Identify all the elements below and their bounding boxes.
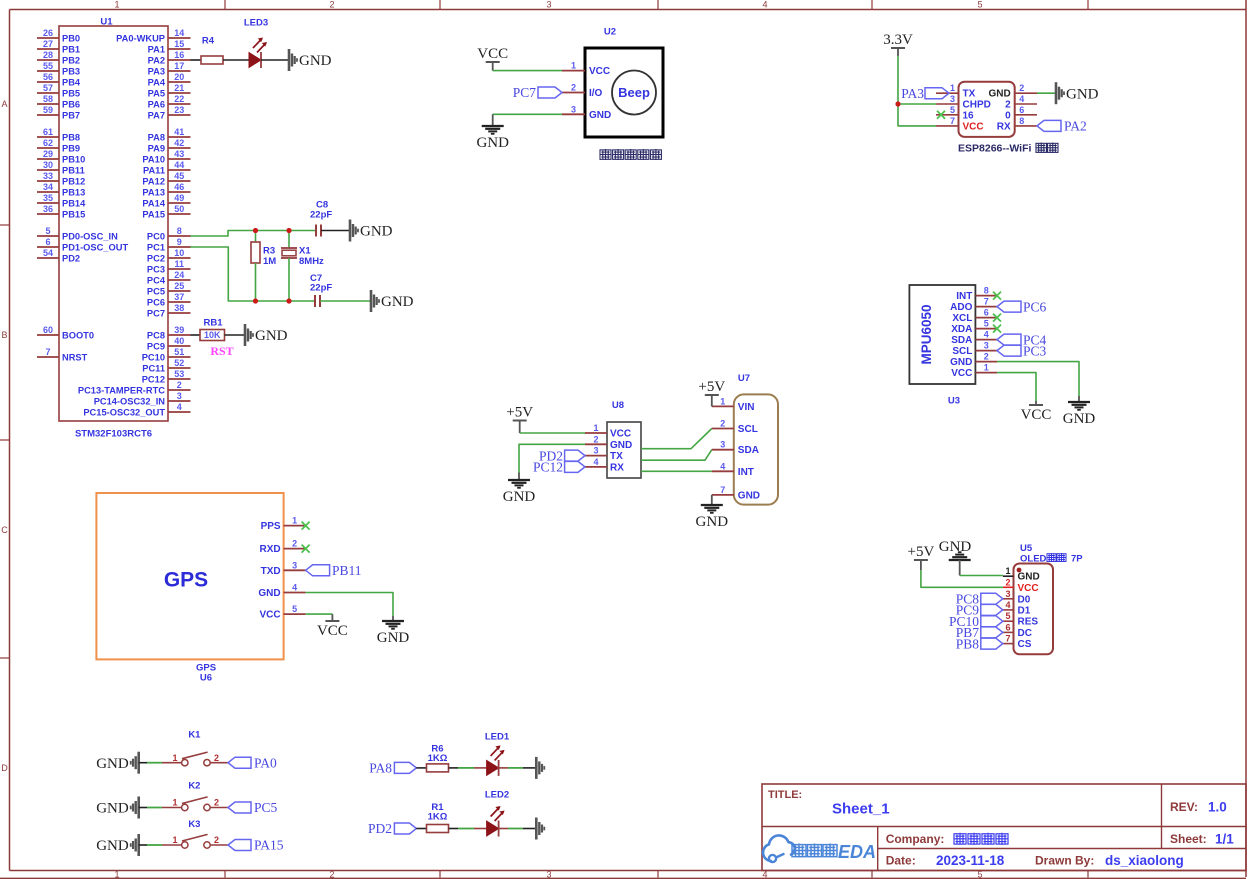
svg-text:Sheet_1: Sheet_1: [832, 800, 890, 817]
svg-text:GND: GND: [381, 294, 414, 310]
svg-text:PC5: PC5: [147, 286, 165, 296]
svg-text:10K: 10K: [204, 330, 221, 340]
svg-text:2: 2: [1019, 83, 1024, 93]
U5 pin 5 RES: [1003, 611, 1038, 628]
svg-text:RST: RST: [210, 344, 233, 358]
title block Sheet: [1170, 832, 1234, 847]
svg-text:+5V: +5V: [506, 405, 533, 421]
svg-text:61: 61: [43, 127, 53, 137]
svg-text:PC14-OSC32_IN: PC14-OSC32_IN: [94, 396, 166, 406]
svg-text:LED2: LED2: [485, 789, 509, 800]
net flag PA3: [901, 86, 949, 101]
U1 pin 57 PB5: [37, 83, 80, 98]
svg-text:PC3: PC3: [147, 264, 165, 274]
svg-text:28: 28: [43, 50, 53, 60]
svg-text:PA8: PA8: [369, 761, 392, 776]
wire R4 to LED3: [223, 59, 249, 61]
svg-text:4: 4: [762, 0, 767, 10]
title block REV: [1170, 800, 1227, 815]
svg-text:54: 54: [43, 248, 53, 258]
U5 pin 6 DC: [1003, 622, 1032, 639]
svg-text:I/O: I/O: [589, 88, 603, 99]
svg-text:5: 5: [950, 105, 955, 115]
svg-text:PD2: PD2: [62, 253, 80, 263]
svg-text:GND: GND: [503, 489, 536, 505]
U1 pin 44 PA11: [143, 160, 191, 175]
svg-text:PA5: PA5: [148, 88, 165, 98]
svg-text:CS: CS: [1018, 639, 1032, 650]
svg-text:3: 3: [593, 446, 598, 456]
svg-text:U8: U8: [612, 400, 624, 411]
U5 pin 2 VCC: [1003, 577, 1039, 594]
svg-text:XCL: XCL: [952, 313, 972, 324]
wire R3 top: [255, 231, 257, 243]
svg-text:PB11: PB11: [332, 563, 362, 578]
U1 pin 3 PC14-OSC32_IN: [94, 391, 191, 406]
U1 pin 45 PA12: [142, 171, 190, 186]
svg-text:PC12: PC12: [142, 374, 165, 384]
U1 pin 55 PB3: [37, 61, 80, 76]
power flag +5V at U5: [908, 544, 935, 560]
svg-text:PA4: PA4: [148, 77, 166, 87]
svg-text:PB6: PB6: [62, 99, 80, 109]
U1 pin 30 PB11: [37, 160, 85, 175]
U3 pin 3 SCL: [952, 341, 997, 358]
svg-text:5: 5: [292, 604, 297, 614]
U1 pin 17 PA3: [148, 61, 191, 76]
no-connect X at U3 pins 8 6 5: [993, 292, 1001, 333]
svg-text:2: 2: [571, 83, 576, 93]
svg-text:2: 2: [593, 434, 598, 444]
svg-text:GND: GND: [258, 588, 280, 599]
U6 pin 3 TXD: [261, 560, 306, 577]
svg-text:GND: GND: [610, 440, 632, 451]
svg-text:DC: DC: [1018, 628, 1032, 639]
svg-text:0: 0: [1005, 110, 1011, 121]
svg-text:56: 56: [43, 72, 53, 82]
U7 pin 4 INT: [712, 461, 754, 478]
power flag +5V at U7: [698, 379, 725, 406]
svg-text:PA13: PA13: [142, 187, 165, 197]
wire U2 pin3 to GND: [493, 113, 562, 115]
svg-text:PA1: PA1: [148, 44, 165, 54]
svg-text:K3: K3: [188, 819, 200, 830]
svg-text:PA9: PA9: [148, 143, 165, 153]
ground GND at GPS: [392, 616, 394, 621]
LED LED3: [244, 17, 268, 68]
svg-text:D1: D1: [1018, 605, 1031, 616]
LED LED2: [485, 789, 509, 836]
power flag VCC at U3: [1021, 401, 1052, 423]
U8 pin 3 TX: [585, 446, 623, 463]
svg-text:PD2: PD2: [368, 821, 392, 836]
U1 pin 11 PC3: [147, 259, 191, 274]
pin1 mark dot U5: [1017, 568, 1022, 573]
svg-text:PB15: PB15: [62, 209, 85, 219]
svg-text:3.3V: 3.3V: [883, 32, 913, 48]
svg-text:2: 2: [1005, 100, 1011, 111]
svg-text:1: 1: [172, 835, 177, 845]
svg-text:3: 3: [546, 0, 551, 10]
svg-text:42: 42: [174, 138, 184, 148]
svg-text:GND: GND: [1066, 86, 1099, 102]
svg-text:PC5: PC5: [254, 800, 278, 815]
svg-text:Beep: Beep: [618, 85, 650, 100]
svg-text:PB13: PB13: [62, 187, 85, 197]
svg-text:4: 4: [984, 330, 989, 340]
svg-text:10: 10: [174, 248, 184, 258]
ground GND at U2: [492, 114, 494, 125]
no-connect X at GPS pins 1 2: [302, 522, 310, 553]
svg-text:PA3: PA3: [901, 86, 924, 101]
svg-text:4: 4: [720, 461, 725, 471]
svg-text:40: 40: [174, 336, 184, 346]
svg-text:PA7: PA7: [148, 110, 165, 120]
svg-text:EDA: EDA: [838, 842, 876, 862]
svg-text:STM32F103RCT6: STM32F103RCT6: [75, 428, 152, 439]
svg-text:51: 51: [174, 347, 184, 357]
svg-text:GND: GND: [939, 539, 972, 555]
svg-text:30: 30: [43, 160, 53, 170]
ground GND at K3: [96, 834, 139, 856]
net flag PB11: [306, 563, 362, 578]
svg-text:GND: GND: [1063, 411, 1096, 427]
U1 pin 2 PC13-TAMPER-RTC: [78, 380, 191, 395]
svg-text:PB3: PB3: [62, 66, 80, 76]
U5 pin 7 CS: [1003, 634, 1032, 651]
U1 pin 60 BOOT0: [37, 325, 94, 340]
U3 pin 6 XCL: [952, 308, 997, 325]
U1 pin 34 PB13: [37, 182, 85, 197]
svg-text:U1: U1: [100, 16, 113, 27]
U1 pin 9 PC1: [147, 237, 191, 252]
svg-text:52: 52: [174, 358, 184, 368]
svg-text:7: 7: [950, 116, 955, 126]
U1 pin 38 PC7: [147, 303, 191, 318]
svg-text:PC11: PC11: [142, 363, 165, 373]
svg-text:60: 60: [43, 325, 53, 335]
svg-text:58: 58: [43, 94, 53, 104]
resistor R1 1K: [427, 802, 449, 832]
net flag PC5: [228, 800, 278, 815]
ground at LED1: [536, 757, 544, 779]
svg-text:VCC: VCC: [589, 66, 610, 77]
svg-text:1.0: 1.0: [1208, 800, 1227, 815]
resistor R6 1K: [427, 743, 449, 772]
svg-text:1M: 1M: [263, 256, 276, 267]
U1 pin 61 PB8: [37, 127, 80, 142]
svg-text:20: 20: [174, 72, 184, 82]
svg-text:PC7: PC7: [147, 308, 165, 318]
svg-text:2: 2: [329, 870, 334, 879]
wire R3 bottom: [255, 263, 257, 301]
title block frame: [762, 784, 1246, 871]
wire U8 GND: [519, 444, 585, 472]
svg-text:1KΩ: 1KΩ: [428, 812, 448, 823]
svg-text:+5V: +5V: [908, 544, 935, 560]
U1 pin 16 PA2: [148, 50, 191, 65]
svg-text:PB4: PB4: [62, 77, 81, 87]
svg-text:2: 2: [720, 419, 725, 429]
svg-text:4: 4: [292, 583, 297, 593]
svg-text:1KΩ: 1KΩ: [428, 753, 448, 764]
svg-text:PD0-OSC_IN: PD0-OSC_IN: [62, 231, 118, 241]
ground at LED2: [536, 818, 544, 840]
svg-text:PB12: PB12: [62, 176, 85, 186]
svg-text:39: 39: [174, 325, 184, 335]
U1 pin 5 PD0-OSC_IN: [37, 226, 118, 241]
svg-text:TX: TX: [610, 451, 623, 462]
svg-text:11: 11: [174, 259, 184, 269]
svg-text:PA15: PA15: [254, 838, 284, 853]
no-connect X at ESP pin5: [937, 111, 945, 119]
svg-text:38: 38: [174, 303, 184, 313]
U1 pin 51 PC10: [142, 347, 191, 362]
wire K1 to flag: [210, 762, 228, 764]
svg-text:VCC: VCC: [610, 429, 631, 440]
power flag 3.3V: [883, 32, 913, 56]
U1 pin 52 PC11: [142, 358, 190, 373]
ground GND at LED3: [289, 49, 332, 71]
svg-text:7: 7: [1005, 634, 1010, 644]
svg-text:INT: INT: [956, 291, 972, 302]
wire PA8 to R6: [416, 767, 426, 769]
label OLED blue 7P: [1020, 553, 1083, 564]
svg-text:PC4: PC4: [147, 275, 166, 285]
svg-text:24: 24: [174, 270, 184, 280]
svg-text:1: 1: [984, 363, 989, 373]
svg-text:PD1-OSC_OUT: PD1-OSC_OUT: [62, 242, 128, 252]
net flag PA2: [1037, 119, 1087, 134]
svg-text:PC12: PC12: [533, 460, 563, 475]
U5 pin 4 D1: [1003, 600, 1031, 617]
svg-text:GND: GND: [589, 110, 611, 121]
svg-text:34: 34: [43, 182, 53, 192]
U3 pin 7 ADO: [950, 297, 997, 314]
svg-text:PC2: PC2: [147, 253, 165, 263]
svg-text:RES: RES: [1018, 617, 1039, 628]
svg-text:7P: 7P: [1071, 553, 1083, 564]
svg-text:22pF: 22pF: [310, 209, 332, 220]
svg-text:5: 5: [1005, 611, 1010, 621]
svg-text:SCL: SCL: [738, 424, 758, 435]
svg-text:37: 37: [174, 292, 184, 302]
svg-text:43: 43: [174, 149, 184, 159]
svg-text:1: 1: [1005, 566, 1010, 576]
wire LED2 to GND: [499, 828, 537, 830]
svg-text:1: 1: [114, 870, 119, 879]
svg-text:1: 1: [593, 423, 598, 433]
svg-text:26: 26: [43, 28, 53, 38]
U1 pin 58 PB6: [37, 94, 80, 109]
U1 pin 53 PC12: [142, 369, 191, 384]
svg-text:PC1: PC1: [147, 242, 165, 252]
svg-text:21: 21: [174, 83, 184, 93]
wire PD2 to R1: [416, 828, 426, 830]
ESP8266 pin 6 0: [1005, 105, 1037, 122]
svg-text:2: 2: [984, 352, 989, 362]
U3 pin 4 SDA: [951, 330, 997, 347]
svg-text:2: 2: [292, 539, 297, 549]
svg-text:6: 6: [1019, 105, 1024, 115]
svg-text:GND: GND: [738, 490, 760, 501]
svg-text:R3: R3: [263, 245, 275, 256]
svg-text:PPS: PPS: [261, 521, 281, 532]
U1 pin 27 PB1: [37, 39, 80, 54]
svg-text:R4: R4: [202, 35, 215, 46]
svg-text:Sheet:: Sheet:: [1170, 832, 1207, 846]
net flag PD2: [539, 448, 585, 463]
U3 pin 1 VCC: [951, 363, 997, 380]
wire X1 top: [288, 231, 290, 249]
svg-text:PC3: PC3: [1023, 343, 1047, 358]
U1 pin 35 PB14: [37, 193, 86, 208]
U6 pin 5 VCC: [259, 604, 305, 621]
title block Date: [886, 853, 1184, 868]
svg-text:NRST: NRST: [62, 352, 88, 362]
svg-text:Date:: Date:: [886, 854, 916, 868]
U1 pin 26 PB0: [37, 28, 80, 43]
svg-text:K2: K2: [188, 781, 200, 792]
svg-text:PC13-TAMPER-RTC: PC13-TAMPER-RTC: [78, 385, 165, 395]
svg-text:6: 6: [45, 237, 50, 247]
svg-text:PA8: PA8: [148, 132, 165, 142]
svg-text:53: 53: [174, 369, 184, 379]
ground GND at C8: [350, 220, 393, 242]
IC U3 MPU6050 body: [909, 285, 975, 406]
svg-text:27: 27: [43, 39, 53, 49]
svg-text:PC10: PC10: [142, 352, 165, 362]
svg-text:29: 29: [43, 149, 53, 159]
svg-text:SDA: SDA: [738, 445, 759, 456]
svg-text:XDA: XDA: [951, 324, 972, 335]
U1 pin 43 PA10: [142, 149, 190, 164]
svg-text:2: 2: [214, 753, 219, 763]
wire GPS VCC: [306, 613, 333, 615]
U1 pin 50 PA15: [142, 204, 190, 219]
net flag PC6: [997, 299, 1047, 314]
ESP8266 pin 5 16: [936, 105, 974, 122]
wire PA2 to R4: [191, 59, 202, 61]
svg-text:1/1: 1/1: [1215, 832, 1234, 847]
wire GND to K1: [139, 762, 182, 764]
IC U7 body: [734, 373, 778, 505]
U1 pin 37 PC6: [147, 292, 191, 307]
power flag VCC at U2: [477, 46, 508, 71]
U5 pin 3 D0: [1003, 589, 1031, 606]
svg-text:U3: U3: [948, 395, 960, 406]
U1 pin 59 PB7: [37, 105, 80, 120]
net flag PA8: [369, 761, 416, 776]
U3 pin 8 INT: [956, 286, 997, 303]
ESP8266 pin 4 2: [1005, 94, 1037, 111]
U1 pin 6 PD1-OSC_OUT: [37, 237, 128, 252]
net flag PC3: [997, 343, 1047, 358]
net flag PC7: [513, 85, 562, 100]
wire C7 to GND: [320, 300, 371, 302]
svg-text:GND: GND: [96, 838, 129, 854]
svg-text:+5V: +5V: [698, 379, 725, 395]
svg-text:INT: INT: [738, 467, 754, 478]
svg-text:LED3: LED3: [244, 17, 268, 28]
title block Company: [886, 832, 1008, 846]
U8 pin 1 VCC: [585, 423, 631, 440]
svg-text:1: 1: [720, 396, 725, 406]
svg-text:3: 3: [571, 104, 576, 114]
svg-text:PC9: PC9: [147, 341, 165, 351]
U7 pin 1 VIN: [712, 396, 755, 413]
svg-text:16: 16: [174, 50, 184, 60]
svg-text:4: 4: [1005, 600, 1010, 610]
wire GND to K3: [139, 844, 182, 846]
wire RB1 to GND: [225, 334, 246, 336]
svg-text:PA2: PA2: [148, 55, 165, 65]
junction dot 3.3V: [895, 101, 900, 106]
wire U8 to U7 SDA: [641, 450, 712, 461]
svg-text:1: 1: [571, 61, 576, 71]
svg-text:PC0: PC0: [147, 231, 165, 241]
svg-text:TX: TX: [963, 89, 976, 100]
svg-text:PC15-OSC32_OUT: PC15-OSC32_OUT: [83, 407, 165, 417]
switch K3: [172, 834, 219, 848]
svg-text:3: 3: [177, 391, 182, 401]
wire U8 to U7 INT: [641, 470, 712, 472]
svg-text:VIN: VIN: [738, 402, 755, 413]
svg-text:55: 55: [43, 61, 53, 71]
svg-text:PA11: PA11: [143, 165, 165, 175]
svg-text:14: 14: [174, 28, 184, 38]
svg-text:25: 25: [174, 281, 184, 291]
ground GND at U7: [711, 495, 713, 504]
svg-text:9: 9: [177, 237, 182, 247]
wire LED1 to GND: [499, 767, 537, 769]
svg-text:PA12: PA12: [142, 176, 165, 186]
svg-text:1: 1: [172, 753, 177, 763]
svg-text:PB5: PB5: [62, 88, 80, 98]
svg-text:8: 8: [177, 226, 182, 236]
svg-text:3: 3: [1005, 589, 1010, 599]
wire U8 to U7 SCL: [641, 429, 712, 449]
svg-text:8MHz: 8MHz: [299, 256, 324, 267]
label buzzer module CJK: [600, 149, 661, 160]
svg-text:3: 3: [546, 870, 551, 879]
svg-text:U6: U6: [200, 672, 212, 683]
wire LED3 to GND: [261, 59, 289, 61]
svg-text:4: 4: [1019, 94, 1024, 104]
svg-text:4: 4: [593, 457, 598, 467]
resistor R4: [201, 35, 223, 64]
svg-text:5: 5: [45, 226, 50, 236]
label ESP8266--WiFi module: [958, 142, 1058, 154]
resistor RB1 10K: [200, 317, 225, 340]
svg-text:GND: GND: [255, 328, 288, 344]
svg-text:16: 16: [963, 110, 975, 121]
svg-text:VCC: VCC: [317, 623, 348, 639]
U1 pin 54 PD2: [37, 248, 80, 263]
U6 pin 1 PPS: [261, 516, 306, 533]
svg-text:22pF: 22pF: [310, 282, 332, 293]
svg-text:Company:: Company:: [886, 832, 945, 846]
svg-text:GND: GND: [96, 756, 129, 772]
svg-text:36: 36: [43, 204, 53, 214]
svg-text:U5: U5: [1020, 543, 1033, 554]
wire +5V to U5 pin2: [921, 560, 1003, 587]
svg-text:41: 41: [174, 127, 184, 137]
U1 pin 25 PC5: [147, 281, 191, 296]
IC U1 STM32F103RCT6 body: [59, 16, 168, 439]
svg-text:62: 62: [43, 138, 53, 148]
U1 pin 8 PC0: [147, 226, 191, 241]
